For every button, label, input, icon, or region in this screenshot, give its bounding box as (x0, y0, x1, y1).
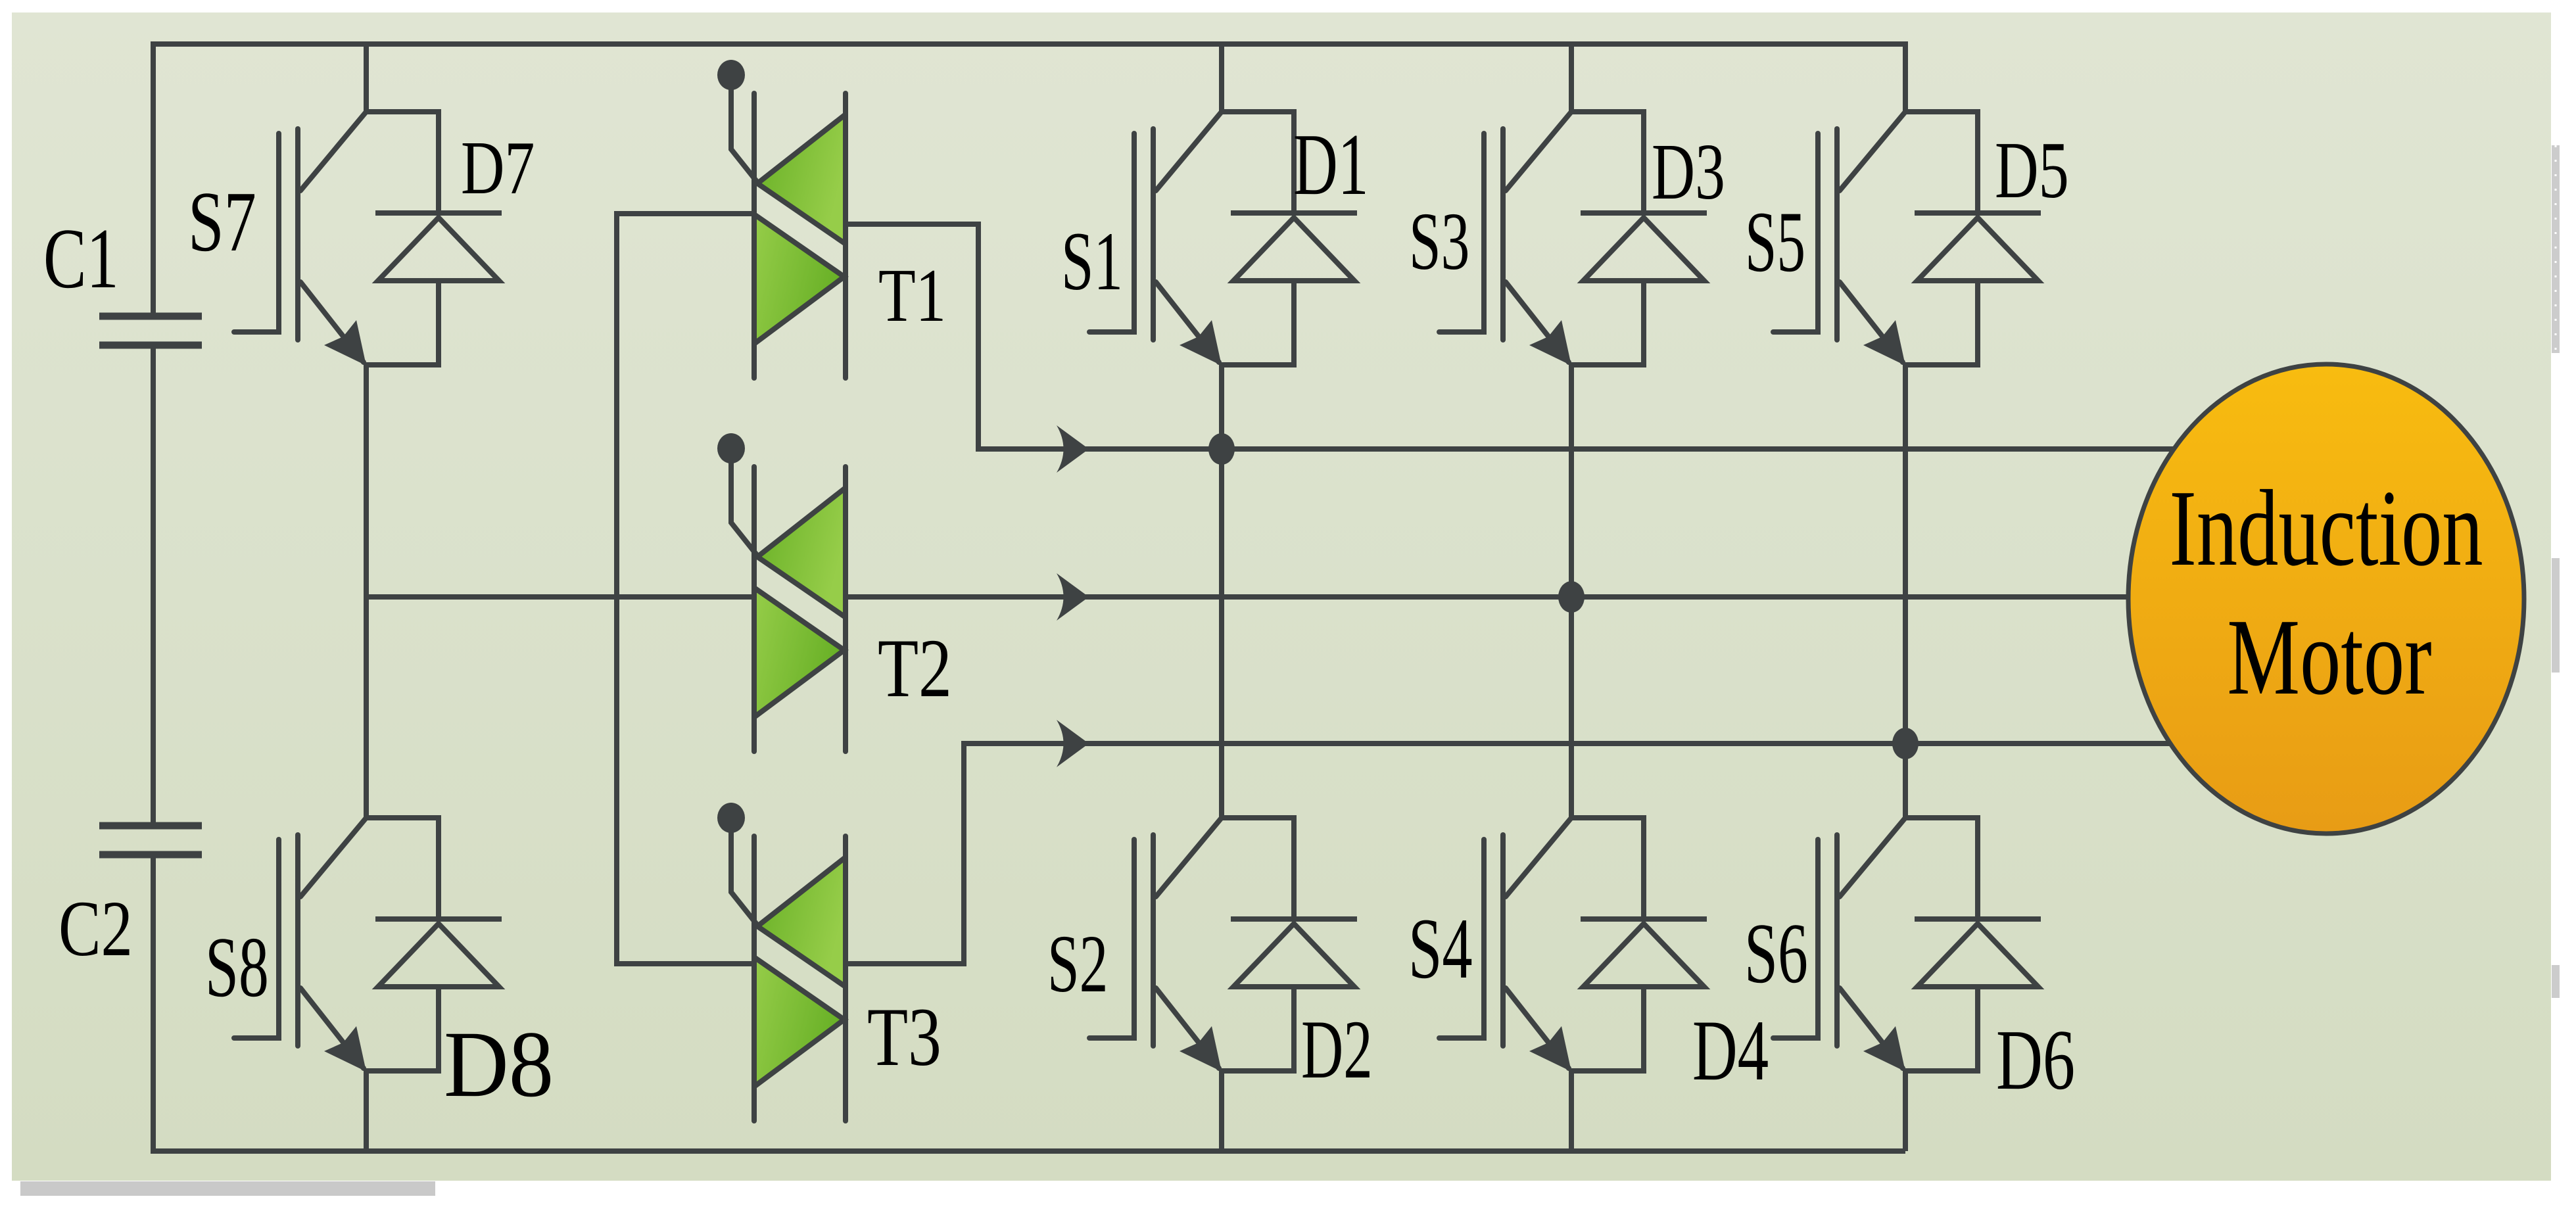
wire: T3 output to phase C line (846, 744, 2170, 964)
svg-text:Induction: Induction (2169, 467, 2483, 588)
transistor S3 (IGBT) (1439, 112, 1644, 365)
svg-text:S2: S2 (1047, 919, 1108, 1010)
wire: bottom DC rail (153, 855, 1905, 1151)
svg-text:D5: D5 (1995, 125, 2069, 215)
capacitor C1 (99, 316, 202, 345)
wire: top DC rail (153, 44, 1905, 316)
triac T1 (754, 93, 846, 378)
diode D1 (1231, 213, 1357, 281)
svg-text:Motor: Motor (2227, 596, 2431, 717)
arrow: phase C (1057, 720, 1089, 767)
svg-text:T1: T1 (878, 252, 946, 337)
diode D8 (375, 919, 502, 987)
node C junction dot (1892, 728, 1919, 759)
svg-text:D1: D1 (1293, 116, 1369, 214)
svg-text:C2: C2 (59, 884, 133, 973)
svg-text:D7: D7 (461, 126, 535, 210)
node A junction dot (1208, 433, 1235, 465)
wire: T1 anode link (left) (617, 214, 754, 964)
transistor S1 (IGBT) (1089, 112, 1294, 365)
induction motor (2128, 364, 2524, 834)
wire: middle wire from S7/S8 node to T2 (366, 594, 754, 600)
transistor S8 (IGBT) (234, 818, 439, 1071)
svg-text:D2: D2 (1301, 1003, 1373, 1095)
gate terminal of T1 (731, 85, 759, 185)
wire: top rail drop at x=2390 (1569, 44, 1574, 112)
svg-text:S7: S7 (188, 175, 256, 270)
gate terminal of T2 (731, 459, 759, 558)
diode D7 (375, 213, 502, 281)
transistor S5 (IGBT) (1773, 112, 1978, 365)
arrow: phase B (1057, 573, 1089, 621)
wire: S1 emitter to S2 collector vertical (1219, 365, 1224, 818)
triac T2 (754, 467, 846, 751)
wire: lower emitter to bottom rail at x=2390 (1569, 1071, 1574, 1151)
wire: left rail between C1 and C2 (151, 345, 156, 826)
wire: lower emitter to bottom rail at x=557 (364, 1071, 369, 1151)
capacitor C2 (99, 826, 202, 855)
svg-text:D8: D8 (444, 1012, 554, 1117)
transistor S6 (IGBT) (1773, 818, 1978, 1071)
svg-text:T3: T3 (867, 991, 942, 1083)
diode D5 (1915, 213, 2041, 281)
svg-text:S1: S1 (1061, 214, 1123, 307)
triac T3 (754, 836, 846, 1121)
transistor S7 (IGBT) (234, 112, 439, 365)
svg-text:S6: S6 (1744, 906, 1808, 1001)
transistor S2 (IGBT) (1089, 818, 1294, 1071)
wire: lower emitter to bottom rail at x=1858 (1219, 1071, 1224, 1151)
wire: T1 output to phase A line (846, 224, 2174, 449)
wire: S5 emitter to S6 collector vertical (1903, 365, 1908, 818)
svg-text:C1: C1 (43, 212, 119, 307)
wire: T2 output / phase B line (846, 594, 2128, 600)
svg-text:D4: D4 (1692, 1003, 1769, 1099)
svg-text:D6: D6 (1996, 1013, 2075, 1108)
wire: top rail drop at x=557 (364, 44, 369, 112)
diode D6 (1915, 919, 2041, 987)
transistor S4 (IGBT) (1439, 818, 1644, 1071)
wire: S3 emitter to S4 collector vertical (1569, 365, 1574, 818)
wire: lower emitter to bottom rail at x=2898 (1903, 1071, 1908, 1151)
gate terminal of T3 (731, 828, 759, 928)
wire: top rail drop at x=1858 (1219, 44, 1224, 112)
diode D4 (1581, 919, 1707, 987)
diode D3 (1581, 213, 1707, 281)
svg-text:S3: S3 (1409, 197, 1469, 287)
svg-text:S5: S5 (1745, 194, 1805, 290)
svg-text:S8: S8 (205, 920, 269, 1015)
svg-text:T2: T2 (878, 622, 952, 714)
svg-text:D3: D3 (1652, 128, 1725, 217)
svg-text:S4: S4 (1408, 900, 1473, 997)
diode D2 (1231, 919, 1357, 987)
arrow: phase A (1057, 425, 1089, 473)
wire: S7 emitter to S8 collector vertical (364, 365, 369, 818)
node B junction dot (1558, 581, 1585, 613)
